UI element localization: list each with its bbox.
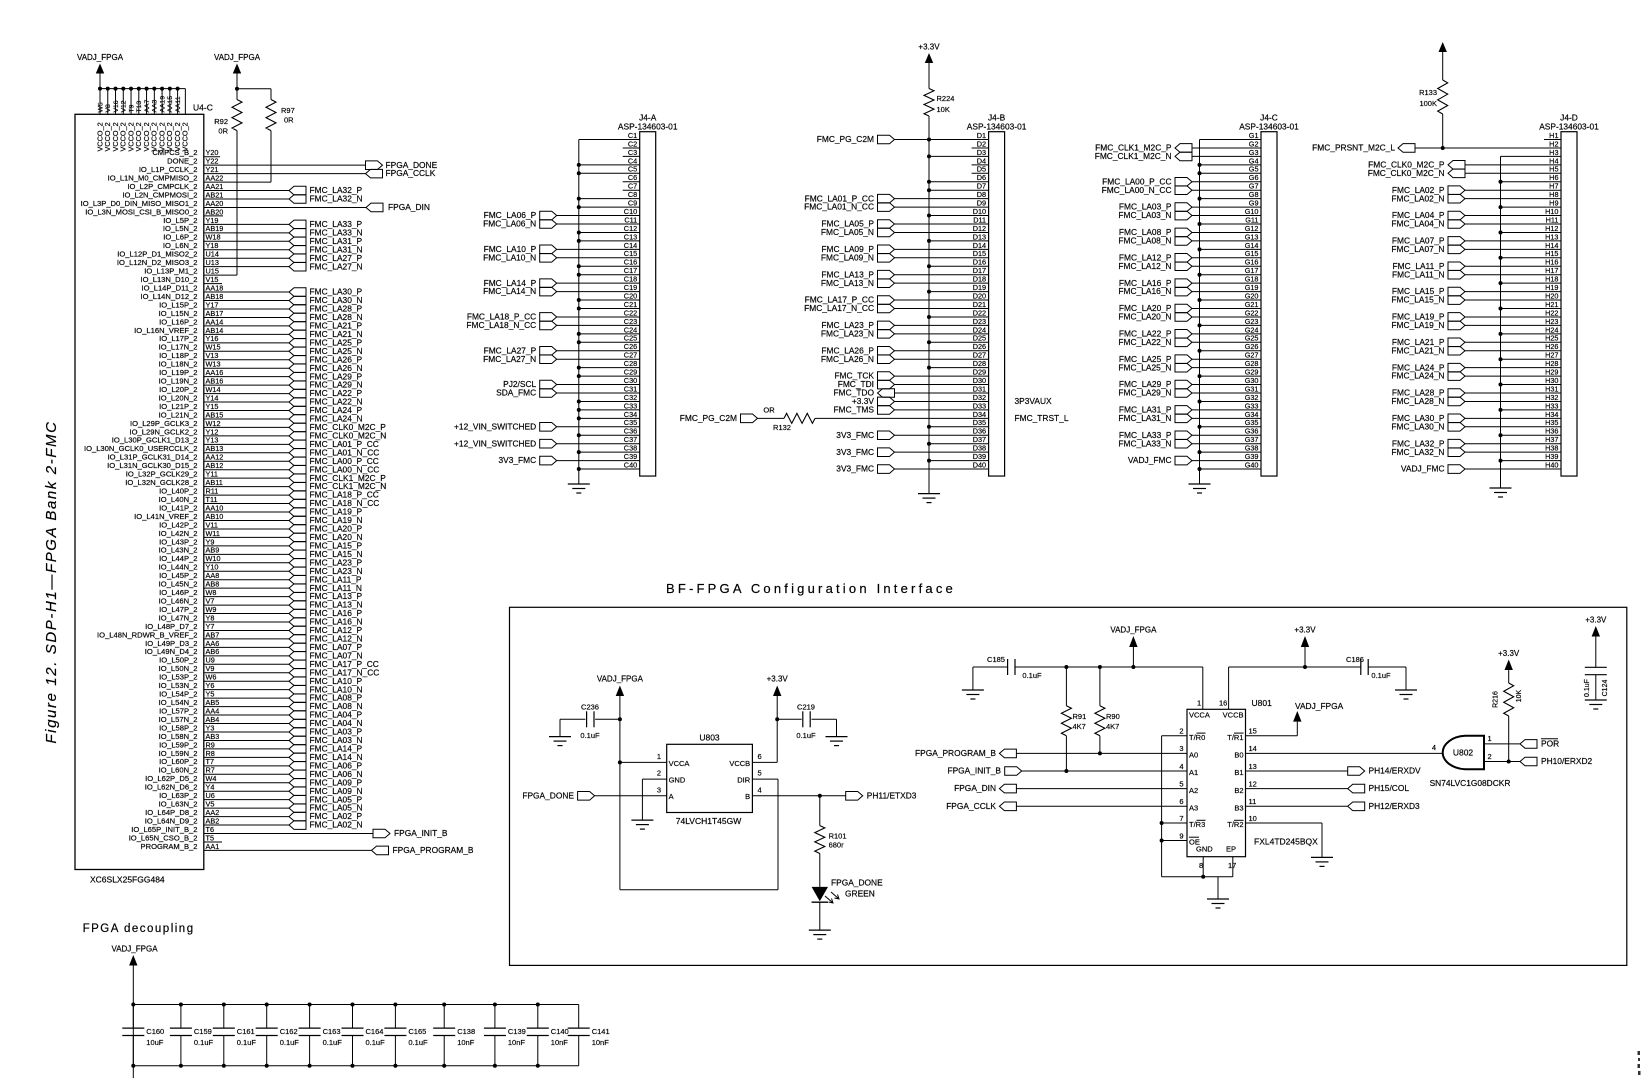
svg-text:FMC_LA08_N: FMC_LA08_N — [1118, 236, 1171, 246]
net flag FMC_LA01_P_CC — [289, 439, 379, 449]
svg-text:FMC_TMS: FMC_TMS — [834, 405, 875, 415]
svg-text:4: 4 — [1432, 743, 1436, 752]
svg-text:+3.3V: +3.3V — [1585, 615, 1607, 624]
svg-text:3: 3 — [657, 785, 661, 794]
J4-D pin H35 — [1391, 418, 1561, 431]
net flag PH10/ERXD2 — [1484, 752, 1593, 766]
U4-C pin Y3 IO_L58P_2 — [159, 723, 289, 732]
svg-text:FMC_LA01_N_CC: FMC_LA01_N_CC — [804, 202, 874, 212]
U4-C pin AB14 IO_L16N_VREF_2 — [134, 326, 289, 335]
svg-text:FMC_LA13_N: FMC_LA13_N — [821, 278, 874, 288]
net flag FMC_LA11_N — [289, 583, 362, 593]
svg-text:FMC_LA17_N_CC: FMC_LA17_N_CC — [804, 303, 874, 313]
svg-text:U4-C: U4-C — [193, 103, 213, 113]
net flag FPGA_CCLK — [366, 168, 436, 178]
svg-text:POR: POR — [1541, 739, 1559, 749]
svg-text:2: 2 — [657, 769, 661, 778]
J4-C pin G40 — [1198, 460, 1262, 471]
svg-text:FPGA_INIT_B: FPGA_INIT_B — [394, 828, 448, 838]
J4-A pin C31 — [496, 384, 640, 397]
J4-D pin H37 — [1392, 435, 1561, 448]
U4-C pin AA22 IO_L1N_M0_CMPMISO_2 — [108, 173, 271, 182]
J4-A pin C30 — [503, 376, 640, 389]
U4-C pin Y14 IO_L20N_2 — [159, 393, 289, 402]
capacitor C219 0.1uF — [775, 703, 836, 741]
net flag FMC_LA26_P — [289, 354, 363, 364]
net flag FMC_LA18_P_CC — [289, 490, 379, 500]
J4-B pin D19 — [927, 283, 989, 294]
J4-A pin C2 — [623, 139, 640, 148]
svg-text:3V3_FMC: 3V3_FMC — [836, 447, 874, 457]
J4-A pin C4 — [577, 156, 640, 167]
net flag FMC_LA22_N — [289, 397, 363, 407]
U4-C pin W8 IO_L46P_2 — [159, 588, 289, 597]
U4-C pin AA2 IO_L64P_D8_2 — [145, 808, 289, 817]
svg-text:FMC_LA07_N: FMC_LA07_N — [1391, 244, 1444, 254]
wire U801 pin2/7/9 tie — [1160, 736, 1187, 877]
U4-C pin AB12 IO_L31N_GCLK30_D15_2 — [107, 461, 289, 470]
J4-A pin C22 — [467, 308, 640, 321]
U4-C pin U6 IO_L63P_2 — [159, 791, 289, 800]
svg-text:FMC_LA12_N: FMC_LA12_N — [1118, 261, 1171, 271]
J4-D pin H12 — [1499, 224, 1562, 235]
svg-text:4: 4 — [1179, 762, 1183, 771]
net flag FMC_LA15_N — [289, 549, 363, 559]
power +3.3V (U803 VCCB) — [767, 675, 789, 763]
J4-D pin H15 — [1499, 249, 1562, 260]
svg-text:3P3VAUX: 3P3VAUX — [1015, 396, 1052, 406]
J4-D pin H16 — [1393, 258, 1561, 271]
J4-C pin G24 — [1119, 325, 1261, 338]
U4-C pin V7 IO_L46N_2 — [159, 596, 289, 605]
svg-text:9: 9 — [1179, 831, 1183, 840]
svg-text:C139: C139 — [508, 1027, 526, 1036]
svg-text:T/R2: T/R2 — [1227, 820, 1243, 829]
svg-text:0R: 0R — [218, 127, 228, 136]
svg-text:6: 6 — [1179, 797, 1183, 806]
U4-C pin AA10 IO_L41P_2 — [159, 503, 289, 512]
J4-D pin H31 — [1392, 384, 1561, 397]
svg-text:BF-FPGA Configuration Interfac: BF-FPGA Configuration Interface — [666, 581, 956, 596]
svg-text:10nF: 10nF — [551, 1038, 569, 1047]
svg-text:VADJ_FPGA: VADJ_FPGA — [214, 53, 261, 62]
capacitor C163 0.1uF — [299, 1003, 343, 1068]
net flag FMC_LA14_P — [289, 744, 363, 754]
power VADJ_FPGA (U801 VCCA rail) — [1110, 625, 1157, 669]
svg-text:2: 2 — [1179, 727, 1183, 736]
J4-D pin H33 — [1499, 401, 1562, 412]
config interface border box — [510, 607, 1627, 965]
svg-text:14: 14 — [1249, 744, 1257, 753]
J4-A ground bus wire — [579, 140, 640, 485]
net flag FMC_LA03_P — [289, 727, 363, 737]
J4-D pin H27 — [1499, 351, 1562, 362]
U4-C pin W11 IO_L42N_2 — [159, 529, 289, 538]
J4-C pin G37 — [1118, 435, 1261, 448]
J4-C pin G29 — [1198, 368, 1262, 379]
svg-text:10nF: 10nF — [457, 1038, 475, 1047]
J4-C pin G39 — [1128, 452, 1261, 465]
svg-text:1: 1 — [657, 752, 661, 761]
net flag FMC_LA31_P — [289, 236, 363, 246]
net flag PH14/ERXDV — [1246, 766, 1422, 776]
svg-text:ASP-134603-01: ASP-134603-01 — [967, 121, 1027, 131]
svg-text:C185: C185 — [987, 655, 1005, 664]
J4-A pin C19 — [483, 283, 640, 296]
svg-text:PH12/ERXD3: PH12/ERXD3 — [1369, 801, 1421, 811]
net flag FMC_LA09_P — [289, 777, 363, 787]
J4-A pin C3 — [623, 148, 640, 157]
capacitor C185 0.1uF — [973, 655, 1042, 690]
U4-C pin AB4 IO_L57N_2 — [159, 715, 289, 724]
net flag FMC_LA16_N — [289, 617, 363, 627]
svg-text:R132: R132 — [773, 423, 791, 432]
J4-A pin C34 — [577, 410, 640, 421]
svg-text:VCCA: VCCA — [1189, 711, 1210, 720]
svg-text:T9: T9 — [128, 104, 135, 112]
J4-B pin D26 — [821, 342, 988, 355]
U4-C pin T7 IO_L60P_2 — [159, 757, 289, 766]
svg-text:12: 12 — [1249, 779, 1257, 788]
J4-A pin C29 — [577, 368, 640, 379]
J4-D pin H2 — [1549, 139, 1558, 148]
U4-C pin V5 IO_L63N_2 — [159, 800, 289, 809]
J4-B pin D13 — [927, 232, 989, 243]
svg-text:16: 16 — [1219, 699, 1227, 708]
svg-text:VADJ_FPGA: VADJ_FPGA — [1110, 625, 1157, 634]
net flag FPGA_CCLK (U801) — [946, 801, 1187, 811]
U4-C VCCO_2 pin AA3 — [150, 87, 159, 152]
J4-A pin C28 — [577, 359, 640, 370]
svg-text:VCCB: VCCB — [1223, 711, 1244, 720]
svg-text:17: 17 — [1228, 861, 1236, 870]
svg-text:FMC_LA06_N: FMC_LA06_N — [483, 219, 536, 229]
svg-text:C162: C162 — [280, 1027, 298, 1036]
ground (C186) — [1395, 690, 1417, 699]
net flag FMC_LA25_N — [289, 346, 363, 356]
svg-text:C165: C165 — [408, 1027, 426, 1036]
svg-text:3V3_FMC: 3V3_FMC — [836, 430, 874, 440]
svg-text:FMC_LA02_N: FMC_LA02_N — [1391, 193, 1444, 203]
svg-text:T/R1: T/R1 — [1227, 733, 1243, 742]
svg-text:C40: C40 — [624, 460, 637, 469]
U4-C pin R9 IO_L59P_2 — [159, 740, 289, 749]
decoupling bottom rail wire — [133, 1065, 578, 1067]
U4-C pin Y16 IO_L17P_2 — [159, 334, 289, 343]
J4-C ground bus wire — [1200, 140, 1262, 485]
U4-C pin AB3 IO_L58N_2 — [159, 732, 289, 741]
J4-D pin H30 — [1499, 376, 1562, 387]
U4-C pin T5 IO_L65N_CSO_B_2 — [129, 833, 222, 842]
J4-C pin G27 — [1119, 351, 1261, 364]
wire U803 B to PH11/ETXD3 — [752, 794, 845, 798]
U4-C pin V9 IO_L50N_2 — [159, 664, 289, 673]
svg-text:FPGA_DONE: FPGA_DONE — [831, 878, 883, 888]
AND gate U802 SN74LVC1G08DCKR — [1430, 736, 1511, 788]
J4-B ground bus wire — [928, 140, 930, 494]
svg-text:5: 5 — [758, 769, 762, 778]
J4-A pin C8 — [577, 190, 640, 201]
net flag FMC_LA14_N — [289, 752, 363, 762]
J4-D pin H11 — [1391, 215, 1561, 228]
U4-C pin AA18 IO_L14P_D11_2 — [141, 283, 289, 292]
svg-text:C219: C219 — [797, 703, 815, 712]
svg-text:T13: T13 — [136, 101, 143, 113]
svg-text:74LVCH1T45GW: 74LVCH1T45GW — [676, 816, 742, 826]
svg-text:V8: V8 — [105, 104, 112, 113]
svg-text:FMC_LA28_N: FMC_LA28_N — [1391, 396, 1444, 406]
J4-A pin C24 — [577, 325, 640, 336]
ground (C124) — [1585, 700, 1607, 709]
J4-C pin G33 — [1119, 401, 1261, 414]
J4-A pin C10 — [484, 207, 640, 220]
svg-text:10: 10 — [1249, 814, 1257, 823]
net flag PH11/ETXD3 — [846, 790, 917, 800]
net flag FMC_LA18_N_CC — [289, 498, 379, 508]
U4-C pin U14 IO_L12P_D1_MISO2_2 — [117, 250, 289, 259]
J4-A pin C5 — [577, 165, 640, 176]
capacitor C164 0.1uF — [342, 1003, 386, 1068]
svg-text:0R: 0R — [284, 116, 294, 125]
J4-D pin H29 — [1391, 368, 1561, 381]
svg-text:R92: R92 — [214, 117, 228, 126]
svg-text:VADJ_FMC: VADJ_FMC — [1128, 455, 1172, 465]
svg-text:AA1: AA1 — [206, 842, 220, 851]
net flag FMC_LA32_P — [289, 185, 363, 195]
U4-C pin Y21 IO_L1P_CCLK_2 — [139, 165, 366, 174]
svg-text:C163: C163 — [323, 1027, 341, 1036]
U4-C pin AB6 IO_L49N_D4_2 — [145, 647, 289, 656]
figure caption — [43, 420, 60, 743]
U4-C pin AB11 IO_L32N_GCLK28_2 — [125, 478, 289, 487]
svg-text:FPGA_CCLK: FPGA_CCLK — [386, 168, 436, 178]
U4-C pin U9 IO_L50P_2 — [159, 656, 289, 665]
U4-C pin AA14 IO_L16P_2 — [159, 317, 289, 326]
svg-text:R97: R97 — [281, 106, 295, 115]
net flag FMC_LA10_N — [289, 684, 363, 694]
U4-C pin AB7 IO_L48N_RDWR_B_VREF_2 — [97, 630, 289, 639]
net flag FMC_LA08_P — [289, 693, 363, 703]
svg-text:15: 15 — [1249, 727, 1257, 736]
U4-C pin U13 IO_L12N_D2_MISO3_2 — [117, 258, 289, 267]
svg-text:FMC_LA24_N: FMC_LA24_N — [1391, 371, 1444, 381]
J4-B pin D11 — [821, 215, 988, 228]
J4-D pin H24 — [1499, 325, 1562, 336]
svg-text:680r: 680r — [829, 841, 845, 850]
J4-B pin D23 — [821, 317, 988, 330]
capacitor C161 0.1uF — [213, 1003, 257, 1068]
U4-C pin Y22 DONE_2 — [167, 157, 365, 166]
net flag POR — [1484, 734, 1559, 749]
J4-C pin G35 — [1198, 418, 1262, 429]
J4-C pin G17 — [1198, 266, 1262, 277]
J4-A pin C26 — [484, 342, 640, 355]
U4-C pin U15 IO_L13P_M1_2 — [144, 267, 237, 276]
capacitor C138 10nF — [433, 1003, 475, 1068]
net flag FMC_LA27_N — [289, 261, 363, 271]
U4-C pin AB2 IO_L64N_D9_2 — [145, 816, 289, 825]
svg-text:FMC_LA32_N: FMC_LA32_N — [310, 194, 363, 204]
net flag FMC_LA20_P — [289, 524, 363, 534]
net flag FMC_LA19_N — [289, 515, 363, 525]
J4-D pin H6 — [1499, 173, 1562, 184]
decoupling top rail wire — [133, 1004, 578, 1006]
J4-A pin C35 — [454, 418, 640, 431]
J4-B pin D34 — [973, 410, 986, 419]
net flag FMC_LA33_N — [289, 227, 363, 237]
svg-text:FMC_LA27_N: FMC_LA27_N — [310, 261, 363, 271]
net flag FMC_LA12_N — [289, 634, 363, 644]
capacitor C140 10nF — [527, 1003, 569, 1068]
net flag FMC_LA05_N — [289, 803, 363, 813]
U4-C pin T11 IO_L40N_2 — [159, 495, 289, 504]
svg-text:PH11/ETXD3: PH11/ETXD3 — [867, 790, 917, 800]
svg-text:A3: A3 — [1189, 804, 1198, 813]
J4-B pin D4 — [972, 156, 989, 165]
capacitor C139 10nF — [484, 1003, 526, 1068]
wire U801 B0 to U802 — [1246, 743, 1443, 753]
connector J4-B J4-B — [967, 113, 1027, 477]
svg-text:FMC_PRSNT_M2C_L: FMC_PRSNT_M2C_L — [1312, 143, 1395, 153]
J4-A pin C25 — [577, 334, 640, 345]
svg-text:SN74LVC1G08DCKR: SN74LVC1G08DCKR — [1430, 778, 1511, 788]
U4-C pin Y7 IO_L48P_D7_2 — [145, 622, 289, 631]
U4-C pin R7 IO_L60N_2 — [159, 766, 289, 775]
ground (J4-A bus) — [568, 484, 590, 493]
J4-D pin H20 — [1391, 291, 1561, 304]
U4-C pin AB16 IO_L19N_2 — [159, 377, 289, 386]
svg-text:FMC_LA26_N: FMC_LA26_N — [821, 354, 874, 364]
J4-D pin H18 — [1499, 275, 1562, 286]
net flag FMC_CLK1_M2C_N — [289, 481, 386, 491]
net flag FPGA_DIN (U801) — [954, 783, 1187, 793]
svg-text:AA11: AA11 — [175, 96, 182, 112]
U4-C pin R8 IO_L59N_2 — [159, 749, 289, 758]
svg-text:B0: B0 — [1234, 751, 1243, 760]
J4-C pin G25 — [1118, 334, 1261, 347]
capacitor C141 10nF — [568, 1005, 610, 1066]
J4-C pin G30 — [1119, 376, 1261, 389]
resistor R224 10K — [924, 89, 954, 140]
J4-A pin C36 — [577, 427, 640, 438]
J4-D pin H25 — [1392, 334, 1561, 347]
net flag FMC_LA16_P — [289, 608, 363, 618]
svg-text:10uF: 10uF — [146, 1038, 164, 1047]
net flag FMC_LA02_P — [289, 811, 363, 821]
svg-text:AA15: AA15 — [167, 96, 174, 113]
J4-A pin C37 — [454, 435, 640, 448]
J4-D pin H23 — [1391, 317, 1561, 330]
U4-C pin AB9 IO_L43N_2 — [159, 546, 289, 555]
svg-text:V16: V16 — [113, 100, 120, 112]
svg-text:PH14/ERXDV: PH14/ERXDV — [1369, 766, 1422, 776]
svg-text:R224: R224 — [937, 94, 955, 103]
U4-C pin Y18 IO_L6N_2 — [163, 241, 289, 250]
J4-C pin G36 — [1119, 427, 1261, 440]
power +3.3V (R216) — [1498, 649, 1520, 683]
IC U801 FXL4TD245BQX body — [1179, 698, 1318, 870]
net flag FMC_LA32_N — [289, 194, 363, 204]
svg-text:FPGA_DIN: FPGA_DIN — [954, 783, 996, 793]
svg-text:6: 6 — [758, 752, 762, 761]
J4-A pin C9 — [577, 199, 640, 210]
svg-text:A0: A0 — [1189, 751, 1198, 760]
J4-B pin D6 — [927, 173, 989, 184]
svg-text:C236: C236 — [581, 703, 599, 712]
U4-C pin AB5 IO_L54N_2 — [159, 698, 289, 707]
U4-C VCCO_2 pin AA11 — [173, 87, 182, 152]
net label 3P3VAUX — [1015, 396, 1052, 406]
svg-text:U801: U801 — [1252, 698, 1273, 708]
J4-B pin D25 — [927, 334, 989, 345]
U4-C pin V11 IO_L42P_2 — [159, 520, 289, 529]
U4-C VCCO_2 pin V16 — [111, 87, 120, 152]
J4-D pin H26 — [1391, 342, 1561, 355]
J4-C pin G32 — [1198, 393, 1262, 404]
connector J4-D J4-D — [1539, 113, 1599, 477]
J4-D pin H34 — [1392, 410, 1561, 423]
power VADJ_FPGA (decoupling) — [111, 945, 158, 1079]
net flag FMC_LA26_N — [289, 363, 363, 373]
svg-text:FMC_LA23_N: FMC_LA23_N — [821, 328, 874, 338]
J4-C pin G26 — [1198, 342, 1262, 353]
J4-B pin D39 — [927, 452, 989, 463]
U4-C pin AB20 IO_L3N_MOSI_CSI_B_MISO0_2 — [85, 207, 223, 216]
net flag FMC_PRSNT_M2C_L — [1312, 143, 1561, 153]
U4-C pin W18 IO_L6P_2 — [163, 233, 289, 242]
net flag FMC_LA19_P — [289, 507, 363, 517]
J4-B pin D29 — [834, 368, 988, 381]
J4-B pin D32 — [852, 393, 989, 406]
U4-C pin Y5 IO_L54P_2 — [159, 690, 289, 699]
svg-text:FMC_PG_C2M: FMC_PG_C2M — [680, 413, 737, 423]
svg-text:C138: C138 — [457, 1027, 475, 1036]
net flag FMC_LA07_N — [289, 650, 363, 660]
J4-A pin C23 — [466, 317, 639, 330]
J4-B pin D24 — [821, 325, 989, 338]
svg-text:PH10/ERXD2: PH10/ERXD2 — [1541, 756, 1593, 766]
VCCO rail wire — [100, 88, 185, 90]
J4-B pin D40 — [836, 460, 988, 473]
svg-text:1: 1 — [1488, 734, 1492, 743]
svg-text:C124: C124 — [1602, 680, 1609, 697]
svg-text:+3.3V: +3.3V — [1498, 649, 1520, 658]
svg-text:10nF: 10nF — [508, 1038, 526, 1047]
net flag FMC_LA30_P — [289, 287, 363, 297]
svg-text:FPGA decoupling: FPGA decoupling — [83, 923, 195, 935]
svg-text:GND: GND — [1196, 845, 1213, 854]
svg-text:5: 5 — [1179, 779, 1183, 788]
power +3.3V (R224 pullup) — [918, 43, 940, 89]
net flag FMC_LA00_P_CC — [289, 456, 379, 466]
net flag FMC_LA12_P — [289, 625, 363, 635]
svg-text:C141: C141 — [592, 1027, 610, 1036]
svg-text:Figure 12. SDP-H1—FPGA Bank 2-: Figure 12. SDP-H1—FPGA Bank 2-FMC — [43, 420, 60, 743]
J4-B pin D28 — [927, 359, 989, 370]
J4-C pin G34 — [1118, 410, 1261, 423]
svg-text:PROGRAM_B_2: PROGRAM_B_2 — [141, 842, 198, 851]
U4-C pin AB15 IO_L21N_2 — [159, 410, 289, 419]
J4-D pin H28 — [1392, 359, 1561, 372]
J4-C pin G2 — [1095, 139, 1261, 152]
J4-B pin D5 — [972, 165, 989, 174]
U4-C pin AB8 IO_L45N_2 — [159, 580, 289, 589]
svg-text:FMC_CLK0_M2C_N: FMC_CLK0_M2C_N — [1368, 168, 1445, 178]
J4-C pin G8 — [1198, 190, 1262, 201]
svg-text:0.1uF: 0.1uF — [1371, 671, 1391, 680]
net flag FPGA_DONE — [366, 160, 438, 170]
J4-D ground bus wire — [1501, 156, 1562, 488]
